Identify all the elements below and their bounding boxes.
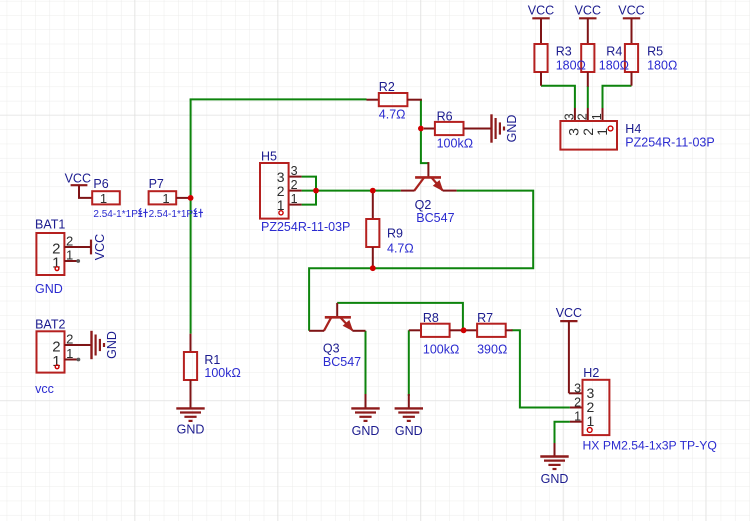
svg-text:1: 1	[590, 113, 604, 120]
wire: R8 left down to ground	[408, 330, 410, 396]
svg-text:1: 1	[66, 346, 73, 361]
wire: R4 bottom to H4 pin2	[587, 86, 589, 108]
no-connect dot BAT1 pin1	[76, 259, 80, 263]
connector BAT1	[35, 218, 80, 296]
resistor R2 4.7Ω	[367, 80, 422, 121]
resistor R8 100kΩ	[409, 311, 464, 357]
ground GND (at BAT2 pin2, rotated)	[65, 331, 120, 359]
svg-text:3: 3	[291, 164, 298, 178]
svg-text:GND: GND	[505, 115, 519, 143]
wire: H5 pin2 across to Q2 collector	[302, 190, 401, 192]
transistor Q3 BC547	[309, 303, 365, 369]
svg-text:VCC: VCC	[556, 306, 582, 320]
header H5 PZ254R-11-03P	[260, 150, 350, 234]
svg-text:VCC: VCC	[528, 4, 554, 18]
resistor R1 100kΩ	[184, 334, 241, 381]
junction: H5 tie bar to pin2 net	[313, 188, 319, 194]
svg-text:100kΩ: 100kΩ	[423, 343, 459, 357]
resistor R6 100kΩ	[424, 110, 479, 151]
svg-text:R7: R7	[477, 311, 493, 325]
svg-text:Q3: Q3	[323, 342, 340, 356]
svg-text:P7: P7	[149, 177, 164, 191]
svg-text:P6: P6	[93, 177, 108, 191]
svg-text:4.7Ω: 4.7Ω	[379, 107, 406, 121]
svg-text:2.54-1*1P: 2.54-1*1P	[149, 209, 194, 220]
wire: Q3 emitter down to ground	[365, 331, 367, 396]
svg-text:1: 1	[291, 192, 298, 206]
power flag VCC (above R3)	[528, 4, 554, 44]
svg-text:2: 2	[574, 396, 581, 410]
svg-text:GND: GND	[395, 424, 423, 438]
svg-text:1: 1	[66, 248, 73, 263]
svg-text:R5: R5	[647, 45, 663, 59]
svg-text:2: 2	[575, 113, 589, 120]
svg-text:390Ω: 390Ω	[477, 343, 507, 357]
wire: top horizontal rail to R2	[190, 98, 367, 100]
resistor R4 180Ω	[581, 44, 594, 87]
svg-text:H2: H2	[583, 366, 599, 380]
svg-text:2: 2	[66, 234, 73, 249]
wire: net from P7/top rail down to R1	[190, 99, 192, 333]
svg-text:R1: R1	[204, 353, 220, 367]
svg-text:HX PM2.54-1x3P TP-YQ: HX PM2.54-1x3P TP-YQ	[583, 438, 717, 452]
svg-text:R8: R8	[423, 311, 439, 325]
svg-text:GND: GND	[541, 472, 569, 486]
svg-text:4.7Ω: 4.7Ω	[387, 242, 414, 256]
svg-text:BAT2: BAT2	[35, 318, 65, 332]
junction: R9 top	[370, 188, 376, 194]
svg-text:GND: GND	[177, 423, 205, 437]
svg-text:BC547: BC547	[323, 355, 361, 369]
wire: R3 bottom to H4 pin3	[541, 86, 575, 108]
svg-text:100kΩ: 100kΩ	[437, 136, 473, 150]
junction: R9 bottom	[370, 265, 376, 271]
ground GND (below Q3 emitter)	[351, 394, 379, 438]
svg-text:180Ω: 180Ω	[647, 59, 677, 73]
svg-text:VCC: VCC	[65, 172, 91, 186]
ground GND (below R8)	[395, 394, 423, 438]
svg-text:1: 1	[574, 410, 581, 424]
power flag VCC (at P6)	[65, 172, 93, 198]
wire: H2 pin1 to ground	[555, 422, 570, 445]
svg-text:VCC: VCC	[575, 4, 601, 18]
resistor R7 390Ω	[464, 311, 513, 357]
svg-text:2: 2	[291, 178, 298, 192]
svg-text:100kΩ: 100kΩ	[204, 366, 240, 380]
svg-text:GND: GND	[105, 331, 119, 359]
connector BAT2	[35, 318, 80, 396]
power flag VCC (above H2 pin3)	[556, 306, 583, 394]
wire: R2 right down to R6 junction and Q2 base jog	[421, 100, 429, 163]
svg-text:H5: H5	[261, 150, 277, 164]
wire: H5 pin3 to pin1 tie bar	[302, 177, 316, 205]
svg-text:2: 2	[66, 332, 73, 347]
ground GND (below R1)	[176, 380, 204, 437]
svg-text:180Ω: 180Ω	[556, 59, 586, 73]
svg-text:180Ω: 180Ω	[599, 59, 629, 73]
resistor R3 180Ω	[534, 44, 547, 86]
ground GND (right of R6, rotated)	[478, 114, 519, 142]
junction: R2/R6/Q2 base	[418, 126, 424, 132]
svg-text:H4: H4	[625, 122, 641, 136]
junction: R8/R7/Q3 base	[461, 327, 467, 333]
wire: Q3 base over to R8/R7 junction	[337, 303, 463, 330]
resistor R9 4.7Ω	[366, 191, 414, 269]
svg-text:PZ254R-11-03P: PZ254R-11-03P	[625, 136, 714, 150]
junction: P7 pin to vertical net	[188, 195, 194, 201]
svg-text:VCC: VCC	[93, 234, 107, 260]
svg-text:R2: R2	[379, 80, 395, 94]
svg-text:PZ254R-11-03P: PZ254R-11-03P	[261, 220, 350, 234]
wire: R7 right to H2 pin2	[512, 330, 570, 407]
svg-text:R6: R6	[437, 110, 453, 124]
power flag VCC (above R5)	[618, 4, 644, 44]
header P7 2.54-1*1P	[149, 177, 203, 220]
svg-text:R9: R9	[387, 227, 403, 241]
svg-text:R3: R3	[556, 45, 572, 59]
header H4 PZ254R-11-03P	[560, 108, 714, 150]
power flag VCC (at BAT1 pin2, rotated)	[64, 234, 107, 260]
svg-text:3: 3	[562, 113, 576, 120]
svg-text:2.54-1*1P: 2.54-1*1P	[93, 209, 138, 220]
svg-text:vcc: vcc	[35, 382, 54, 396]
svg-text:1: 1	[162, 191, 169, 206]
wire: Q2 emitter loop to R9 bottom and Q3 collector	[309, 191, 533, 331]
svg-text:GND: GND	[352, 424, 380, 438]
header H2 HX PM2.54-1x3P TP-YQ	[570, 366, 717, 452]
svg-text:3: 3	[574, 381, 581, 395]
power flag VCC (above R4)	[575, 4, 601, 44]
svg-text:VCC: VCC	[618, 4, 644, 18]
svg-text:GND: GND	[35, 282, 63, 296]
svg-text:R4: R4	[606, 45, 622, 59]
transistor Q2 BC547	[401, 162, 457, 225]
wire: R5 bottom to H4 pin1	[603, 86, 632, 108]
resistor R5 180Ω	[625, 44, 638, 86]
svg-text:1: 1	[587, 413, 595, 429]
header P6 2.54-1*1P	[92, 177, 148, 220]
no-connect dot BAT2 pin1	[77, 358, 81, 362]
svg-text:BC547: BC547	[416, 211, 454, 225]
svg-text:1: 1	[100, 191, 107, 206]
svg-text:BAT1: BAT1	[35, 218, 65, 232]
ground GND (below H2 pin1)	[540, 443, 568, 486]
